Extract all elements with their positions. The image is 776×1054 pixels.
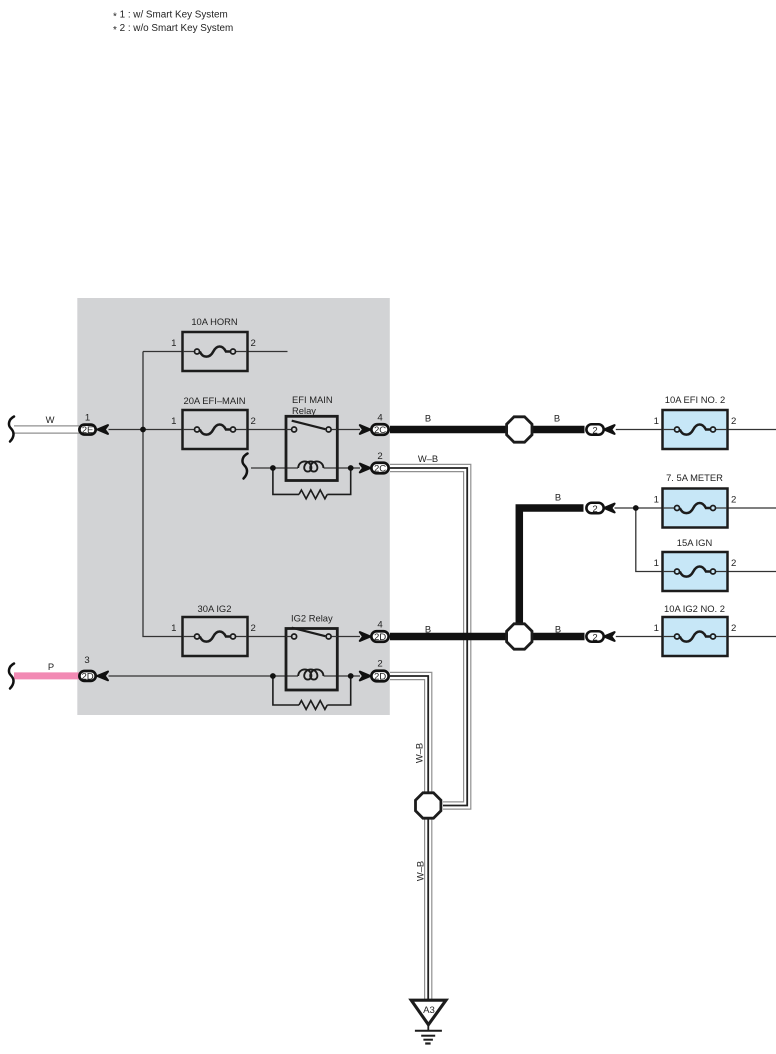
svg-text:B: B [554,413,560,424]
svg-text:EFI MAIN: EFI MAIN [292,394,333,405]
svg-text:1: 1 [654,558,659,569]
svg-text:IG2 Relay: IG2 Relay [291,613,333,624]
svg-text:1: 1 [171,416,176,427]
svg-text:10A EFI NO. 2: 10A EFI NO. 2 [665,394,725,405]
svg-text:2: 2 [592,425,597,436]
svg-text:1: 1 [654,494,659,505]
svg-text:2: 2 [731,623,736,634]
svg-text:P: P [48,661,54,672]
svg-text:2: 2 [731,558,736,569]
svg-text:2: 2 [251,416,256,427]
svg-text:W–B: W–B [418,453,438,464]
svg-text:2: 2 [251,338,256,349]
svg-text:A3: A3 [423,1005,435,1016]
svg-text:W–B: W–B [415,861,426,881]
svg-text:2: 2 [592,504,597,515]
svg-text:2D: 2D [81,672,93,683]
svg-text:1: 1 [171,623,176,634]
svg-text:20A EFI–MAIN: 20A EFI–MAIN [183,395,245,406]
svg-text:1: 1 [171,338,176,349]
svg-text:2: 2 [251,623,256,634]
svg-text:W–B: W–B [414,743,425,763]
svg-text:2: 2 [377,658,382,669]
svg-text:2D: 2D [374,672,386,683]
svg-text:2E: 2E [82,425,94,436]
svg-text:B: B [555,624,561,635]
svg-text:30A IG2: 30A IG2 [198,603,232,614]
svg-text:2D: 2D [374,632,386,643]
svg-text:7. 5A METER: 7. 5A METER [666,472,723,483]
svg-text:4: 4 [377,412,383,423]
svg-text:2: 2 [731,494,736,505]
svg-text:1: 1 [85,412,90,423]
svg-text:W: W [46,414,55,425]
svg-text:2: 2 [592,632,597,643]
svg-text:2: 2 [731,416,736,427]
svg-text:1: 1 [654,416,659,427]
svg-text:B: B [555,492,561,503]
svg-text:B: B [425,413,431,424]
svg-text:3: 3 [84,655,89,666]
svg-text:4: 4 [377,619,383,630]
svg-text:2C: 2C [374,425,386,436]
svg-text:Relay: Relay [292,405,316,416]
svg-text:B: B [425,624,431,635]
svg-text:10A IG2 NO. 2: 10A IG2 NO. 2 [664,603,725,614]
svg-text:15A IGN: 15A IGN [677,537,712,548]
svg-text:1: 1 [654,623,659,634]
svg-text:2C: 2C [374,464,386,475]
svg-text:2: 2 [377,451,382,462]
svg-text:10A HORN: 10A HORN [191,316,237,327]
